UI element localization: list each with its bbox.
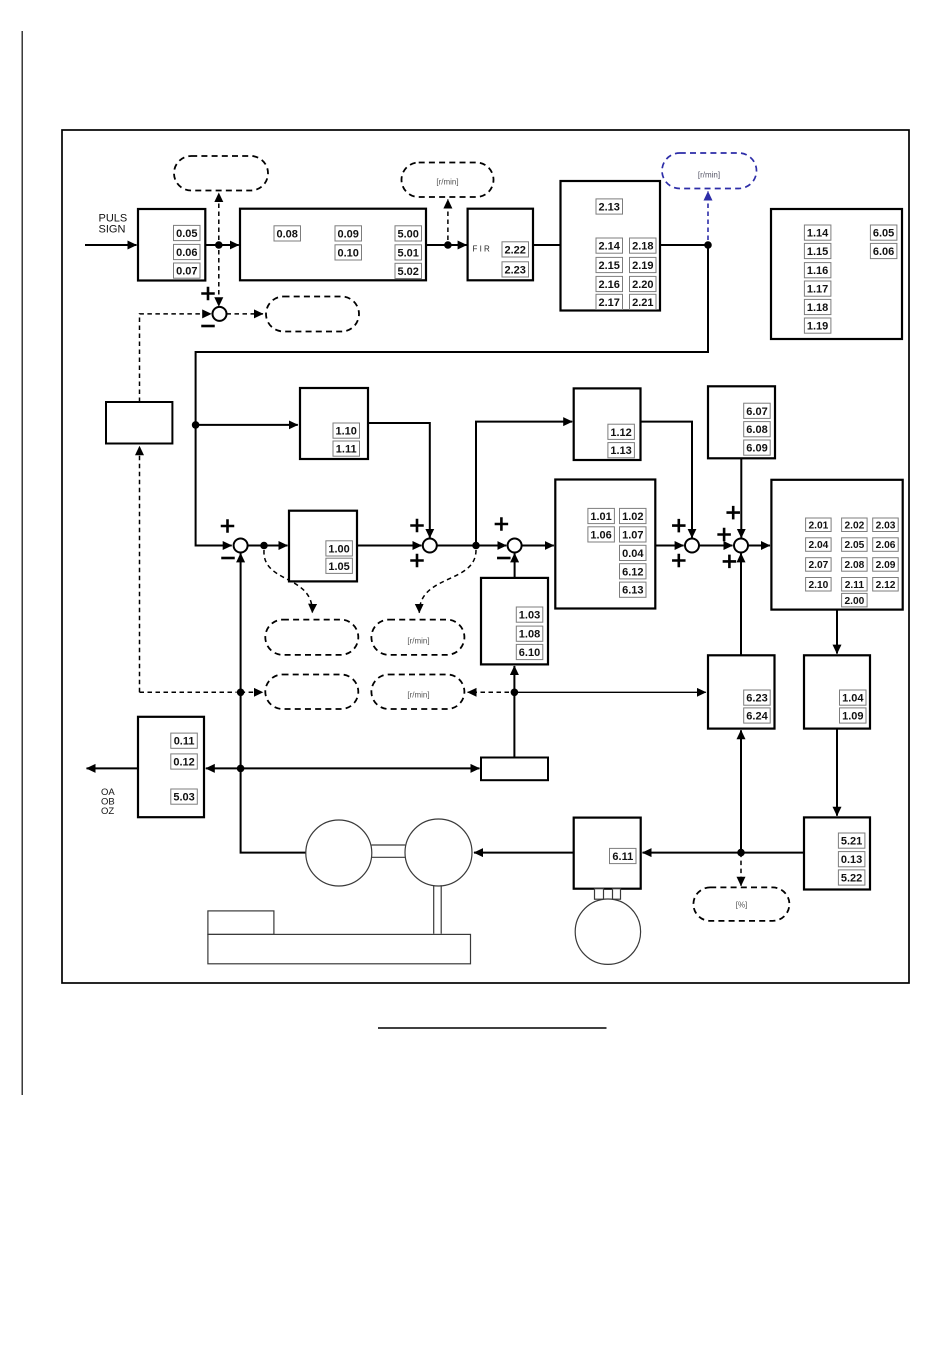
wire down to converter box <box>513 692 515 757</box>
machine gear right <box>405 819 472 886</box>
svg-text:1.15: 1.15 <box>807 246 828 258</box>
svg-text:[r/min]: [r/min] <box>436 178 458 187</box>
svg-text:1.03: 1.03 <box>519 610 540 622</box>
minus sign U4 <box>497 557 511 560</box>
svg-text:2.03: 2.03 <box>876 520 896 531</box>
wire output to left <box>87 767 139 769</box>
node junction G <box>237 689 245 697</box>
plus sign U5 top <box>672 519 686 533</box>
monitor dashed box row2 r/min <box>371 675 464 710</box>
svg-text:6.11: 6.11 <box>612 851 633 863</box>
wire dashed up to monitor box1 <box>218 193 220 240</box>
wire block1 to block2 <box>205 244 239 246</box>
svg-text:0.13: 0.13 <box>841 854 862 866</box>
wire FIR to accel block <box>533 244 561 246</box>
svg-text:1.19: 1.19 <box>807 321 828 333</box>
svg-text:2.11: 2.11 <box>845 580 865 591</box>
wire accel block to junction <box>660 244 708 246</box>
svg-text:6.13: 6.13 <box>622 585 643 597</box>
monitor dashed box row1 r/min <box>371 620 464 655</box>
svg-text:2.14: 2.14 <box>598 241 620 253</box>
page margin rule <box>21 31 23 1095</box>
block compensation (6.07 6.08 6.09) <box>708 386 775 458</box>
node junction I <box>737 849 745 857</box>
block feedback scaling (empty) <box>106 402 172 444</box>
wire dashed to monitor r/min left <box>468 691 509 693</box>
block input counter (0.05 0.06 0.07) <box>138 209 205 281</box>
node junction A <box>215 241 223 249</box>
monitor dashed box r/min blue <box>662 153 757 189</box>
plus sign U3 bottom <box>410 554 424 568</box>
caption rule <box>378 1027 607 1029</box>
summing junction U3 <box>423 539 437 553</box>
wire U6 to current block <box>748 545 770 547</box>
svg-text:2.02: 2.02 <box>844 520 864 531</box>
summing junction U4 <box>508 539 522 553</box>
svg-text:1.16: 1.16 <box>807 265 828 277</box>
wire torque block to U5 <box>655 545 683 547</box>
svg-text:2.18: 2.18 <box>632 241 653 253</box>
svg-text:5.02: 5.02 <box>397 266 418 278</box>
summing junction U2 speed <box>234 539 248 553</box>
svg-text:0.08: 0.08 <box>276 228 297 240</box>
encoder pins <box>595 889 604 900</box>
svg-text:1.05: 1.05 <box>328 561 349 573</box>
svg-text:6.05: 6.05 <box>873 228 894 240</box>
svg-text:6.07: 6.07 <box>746 406 767 418</box>
machine gear left <box>306 820 372 886</box>
block current control (2.01 - 2.12 2.00) <box>771 480 902 610</box>
plus sign U3 top <box>410 519 424 533</box>
block torque control (1.01 1.06 1.02 1.07 0.04 6.12 6.13) <box>555 480 655 609</box>
block parameter list (1.14-1.19 6.05 6.06) <box>771 209 902 339</box>
monitor dashed box r/min top <box>402 163 494 198</box>
wire dashed feedback into U1 <box>140 314 212 402</box>
plus sign U6 bottom <box>723 555 737 569</box>
wire U5 to U6 <box>699 545 733 547</box>
svg-text:5.21: 5.21 <box>841 836 862 848</box>
svg-text:1.17: 1.17 <box>807 284 828 296</box>
svg-text:2.23: 2.23 <box>504 264 525 276</box>
wire dashed U1 to monitor <box>227 313 264 315</box>
svg-text:1.13: 1.13 <box>610 445 631 457</box>
svg-text:2.15: 2.15 <box>598 260 619 272</box>
svg-text:6.10: 6.10 <box>519 647 540 659</box>
wire U4 to torque block <box>522 545 554 547</box>
svg-text:5.22: 5.22 <box>841 873 862 885</box>
machine base <box>208 934 471 963</box>
svg-text:2.06: 2.06 <box>876 540 896 551</box>
plus sign U5 bottom <box>672 554 686 568</box>
wire motor to gear <box>474 852 574 854</box>
wire main speed reference path <box>196 245 708 546</box>
wire dashed curve to monitor r/min <box>419 550 476 613</box>
svg-text:FIR: FIR <box>473 245 493 254</box>
block command pulse (0.08 0.09 0.10 5.00 5.01 5.02) <box>240 209 426 281</box>
svg-text:1.07: 1.07 <box>622 529 643 541</box>
svg-text:2.04: 2.04 <box>808 540 828 551</box>
wire dashed horizontal feedback <box>140 691 237 693</box>
svg-text:2.00: 2.00 <box>844 596 864 607</box>
machine shaft <box>434 885 442 934</box>
svg-text:1.00: 1.00 <box>328 543 349 555</box>
node junction F <box>511 689 519 697</box>
block speed detect (1.03 1.08 6.10) <box>481 578 548 665</box>
plus sign U4 <box>495 517 509 531</box>
svg-text:0.09: 0.09 <box>337 228 358 240</box>
svg-text:6.06: 6.06 <box>873 246 894 258</box>
svg-text:1.11: 1.11 <box>336 444 357 456</box>
svg-text:1.01: 1.01 <box>590 511 611 523</box>
svg-text:2.05: 2.05 <box>844 540 864 551</box>
svg-text:5.03: 5.03 <box>173 792 194 804</box>
wire dashed junction to monitor <box>241 691 263 693</box>
svg-text:6.23: 6.23 <box>746 693 767 705</box>
svg-text:0.12: 0.12 <box>173 757 194 769</box>
monitor dashed box percent <box>693 887 789 921</box>
block observer (6.23 6.24) <box>708 655 775 728</box>
svg-text:0.05: 0.05 <box>176 228 197 240</box>
svg-text:2.21: 2.21 <box>632 297 653 309</box>
svg-text:0.04: 0.04 <box>622 548 644 560</box>
wire current block down to filter <box>836 610 838 654</box>
monitor dashed box top-left <box>174 156 268 191</box>
plus sign U6 left <box>717 528 731 542</box>
svg-text:1.02: 1.02 <box>622 511 643 523</box>
block FIR filter (2.22 2.23) <box>468 209 533 281</box>
svg-text:2.07: 2.07 <box>808 560 828 571</box>
summing junction U6 <box>734 539 748 553</box>
svg-text:1.14: 1.14 <box>807 228 829 240</box>
svg-text:2.09: 2.09 <box>876 560 896 571</box>
svg-text:6.09: 6.09 <box>746 443 767 455</box>
wire branch to feedforward <box>192 421 200 429</box>
svg-text:2.16: 2.16 <box>598 279 619 291</box>
minus sign U1 <box>201 325 215 328</box>
svg-text:0.11: 0.11 <box>174 736 195 748</box>
wire into output block <box>206 767 241 769</box>
summing junction U5 <box>685 539 699 553</box>
svg-text:[r/min]: [r/min] <box>407 637 429 646</box>
wire compensation down to U6 <box>740 458 742 538</box>
svg-text:6.24: 6.24 <box>746 711 768 723</box>
wire U3 to U4 <box>437 545 507 547</box>
wire dashed down to percent monitor <box>740 853 742 886</box>
svg-text:2.22: 2.22 <box>504 244 525 256</box>
wire observer up into U6 <box>740 553 742 655</box>
block converter small <box>481 758 548 781</box>
machine base step <box>208 911 274 935</box>
monitor dashed box row1 left <box>265 620 358 655</box>
svg-text:2.01: 2.01 <box>808 520 828 531</box>
node junction E <box>472 542 480 550</box>
wire torque ff to summing U5 <box>641 422 693 538</box>
node junction D <box>260 542 268 550</box>
wire to observer block <box>514 691 705 693</box>
block accel/decel (2.13 - 2.21) <box>561 181 661 311</box>
block speed loop gain (1.00 1.05) <box>289 511 357 582</box>
plus sign U2 <box>221 519 235 533</box>
wire main feedback vertical <box>241 553 306 852</box>
svg-text:5.00: 5.00 <box>397 228 418 240</box>
node junction H <box>237 765 245 773</box>
wire dashed down to position summing <box>218 250 220 306</box>
block filter (1.04 1.09) <box>804 655 870 728</box>
monitor dashed box position error <box>266 297 359 332</box>
svg-text:[r/min]: [r/min] <box>407 691 429 700</box>
block pulse output (0.11 0.12 5.03) <box>138 717 204 817</box>
svg-text:2.10: 2.10 <box>808 580 828 591</box>
wire torque limit to motor drive <box>643 852 805 854</box>
svg-text:5.01: 5.01 <box>397 247 418 259</box>
svg-text:1.04: 1.04 <box>842 693 864 705</box>
block motor drive (6.11) <box>574 818 641 889</box>
wire gain block to summing U3 <box>357 545 422 547</box>
monitor dashed box row2 left <box>265 675 358 710</box>
minus sign U2 <box>221 557 235 560</box>
svg-text:OZ: OZ <box>101 806 114 817</box>
wire junction to converter <box>241 767 480 769</box>
svg-text:0.06: 0.06 <box>176 247 197 259</box>
svg-text:1.09: 1.09 <box>842 711 863 723</box>
svg-text:2.17: 2.17 <box>598 297 619 309</box>
diagram frame <box>62 130 909 983</box>
encoder body <box>575 899 640 964</box>
node junction B <box>444 241 452 249</box>
svg-text:2.13: 2.13 <box>598 202 619 214</box>
svg-text:2.19: 2.19 <box>632 260 653 272</box>
svg-text:6.12: 6.12 <box>622 566 643 578</box>
wire U2 to speed gain block <box>248 545 288 547</box>
svg-text:0.10: 0.10 <box>337 247 358 259</box>
plus sign U6 top <box>726 506 740 519</box>
svg-text:[%]: [%] <box>736 901 748 910</box>
wire feedforward to summing <box>368 423 430 538</box>
summing junction U1 position <box>213 307 227 321</box>
block torque limit (5.21 0.13 5.22) <box>804 817 870 889</box>
wire input pulse <box>85 244 137 246</box>
wire block2 to FIR <box>426 244 467 246</box>
svg-text:1.18: 1.18 <box>807 302 828 314</box>
block torque feedforward (1.12 1.13) <box>574 388 641 460</box>
svg-text:1.06: 1.06 <box>590 529 611 541</box>
svg-text:0.07: 0.07 <box>176 266 197 278</box>
plus sign U1 <box>201 287 215 301</box>
wire speed detect up into U4 <box>514 553 516 578</box>
wire up to torque feedforward <box>476 422 572 546</box>
wire dashed up into feedback block <box>139 446 141 692</box>
machine coupling <box>372 845 406 857</box>
wire dashed blue up to r/min monitor <box>707 192 709 241</box>
wire junction up to observer <box>740 730 742 852</box>
wire dashed up to r/min monitor <box>447 200 449 241</box>
svg-text:1.12: 1.12 <box>610 427 631 439</box>
wire up into speed detect <box>513 666 515 692</box>
svg-text:[r/min]: [r/min] <box>698 171 720 180</box>
block feedforward (1.10 1.11) <box>300 388 368 459</box>
svg-text:2.20: 2.20 <box>632 279 653 291</box>
svg-text:SIGN: SIGN <box>99 224 126 236</box>
svg-text:1.10: 1.10 <box>335 426 356 438</box>
svg-text:6.08: 6.08 <box>746 424 767 436</box>
wire dashed curve to monitor <box>264 550 312 613</box>
svg-text:1.08: 1.08 <box>519 629 540 641</box>
node junction C <box>704 241 712 249</box>
wire filter down to torque limit <box>836 729 838 816</box>
svg-text:2.08: 2.08 <box>844 560 864 571</box>
svg-text:2.12: 2.12 <box>876 580 896 591</box>
